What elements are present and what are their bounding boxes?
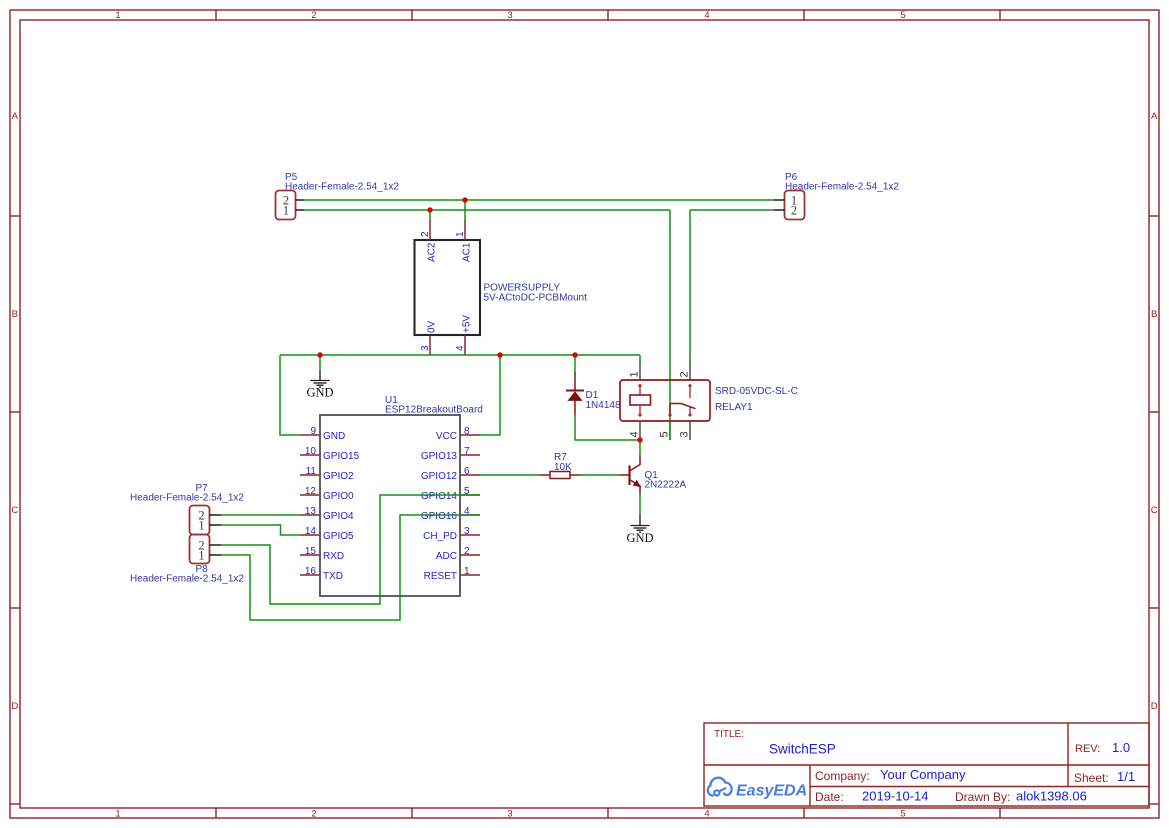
relay pin 5 stub: [669, 421, 671, 440]
svg-text:2019-10-14: 2019-10-14: [862, 789, 929, 804]
svg-text:GPIO13: GPIO13: [421, 451, 458, 462]
svg-text:4: 4: [455, 345, 466, 351]
wire Q1 emitter to GND2: [639, 494, 641, 514]
R7 left lead: [540, 474, 550, 476]
svg-text:Sheet:: Sheet:: [1074, 771, 1109, 785]
relay coil: [638, 384, 641, 387]
svg-text:2: 2: [464, 546, 470, 557]
wire relay pin4 to Q1 collector: [639, 440, 641, 455]
pin 10 GPIO15: [300, 454, 320, 456]
junction dots: [317, 197, 642, 442]
svg-text:4: 4: [704, 10, 709, 21]
svg-text:Company:: Company:: [815, 769, 870, 783]
svg-text:1: 1: [115, 10, 120, 21]
junction GND1: [317, 352, 322, 357]
wire VCC riser: [480, 355, 500, 435]
pin 14 GPIO5: [300, 534, 320, 536]
svg-text:7: 7: [464, 446, 470, 457]
svg-text:AC2: AC2: [427, 242, 438, 262]
svg-text:11: 11: [306, 466, 317, 477]
POWERSUPPLY body: [415, 240, 481, 335]
transistor Q1 2N2222A: [620, 455, 687, 494]
connector P5: [276, 172, 400, 220]
relay pin 1 stub: [639, 360, 641, 380]
svg-text:B: B: [12, 309, 18, 320]
svg-text:2: 2: [791, 204, 797, 218]
power supply module PS1: [415, 220, 588, 355]
svg-text:2: 2: [311, 10, 316, 21]
IC U1 ESP12BreakoutBoard: [300, 395, 483, 582]
wire AC1 drop to PS pin1: [464, 200, 466, 221]
wire rail to relay pin1: [639, 355, 641, 361]
wire GND1 tap: [319, 355, 321, 370]
pin 15 RXD: [300, 554, 320, 556]
R7 body: [550, 472, 570, 479]
pin 4 +5V: [464, 335, 466, 355]
svg-text:A: A: [12, 111, 19, 122]
wire R7 to Q1 base: [580, 474, 620, 476]
svg-text:13: 13: [305, 506, 317, 517]
svg-text:REV:: REV:: [1075, 743, 1100, 755]
svg-text:Date:: Date:: [815, 790, 844, 804]
ground GND2: [631, 514, 650, 532]
svg-text:TITLE:: TITLE:: [714, 729, 744, 740]
svg-text:ADC: ADC: [436, 551, 457, 562]
svg-text:Header-Female-2.54_1x2: Header-Female-2.54_1x2: [130, 574, 244, 585]
wire P8.2 to GPIO14: [221, 495, 480, 604]
svg-text:RESET: RESET: [424, 571, 457, 582]
R7 right lead: [570, 474, 580, 476]
resistor R7 10K: [540, 452, 580, 479]
svg-text:B: B: [1151, 309, 1157, 320]
TOPLAYER: [317, 197, 797, 596]
svg-text:SwitchESP: SwitchESP: [769, 742, 836, 757]
svg-text:0V: 0V: [427, 320, 438, 333]
svg-text:2N2222A: 2N2222A: [645, 480, 687, 491]
pin 7 GPIO13: [460, 454, 480, 456]
junction VCC riser: [497, 352, 502, 357]
pin 1 RESET: [460, 574, 480, 576]
svg-text:3: 3: [679, 431, 691, 437]
Q1 collector: [630, 455, 641, 471]
P6 body: [785, 191, 805, 220]
svg-text:GPIO15: GPIO15: [323, 451, 360, 462]
pin 12 GPIO0: [300, 494, 320, 496]
wire rail to U1 GND pin9: [280, 355, 300, 435]
P5 pin 1 stub: [296, 209, 305, 211]
junction AC2/PS2: [427, 207, 432, 212]
D1 triangle: [567, 391, 582, 401]
svg-text:1.0: 1.0: [1112, 740, 1130, 755]
wire P7.2 to GPIO4: [221, 514, 300, 516]
svg-text:10K: 10K: [554, 462, 572, 473]
svg-text:3: 3: [507, 809, 512, 820]
svg-text:5V-ACtoDC-PCBMount: 5V-ACtoDC-PCBMount: [484, 293, 588, 304]
diode D1 1N4148: [566, 372, 621, 416]
svg-text:5: 5: [900, 10, 905, 21]
pin 4 GPIO16: [460, 514, 480, 516]
junction AC1/PS1: [462, 197, 467, 202]
pin 16 TXD: [300, 574, 320, 576]
pin 5 GPIO14: [460, 494, 480, 496]
svg-text:AC1: AC1: [462, 242, 473, 262]
svg-text:RXD: RXD: [323, 551, 344, 562]
svg-text:5: 5: [900, 809, 905, 820]
wire P7.1 to GPIO5: [221, 525, 300, 535]
D1 cathode lead: [574, 372, 576, 391]
pin 8 VCC: [460, 434, 480, 436]
pin 9 GND: [300, 434, 320, 436]
svg-text:2: 2: [420, 231, 431, 237]
P5 pin 2 stub: [296, 199, 305, 201]
Q1 base bar: [628, 466, 630, 486]
P6 pin 1 stub: [774, 199, 785, 201]
relay pin stubs: [640, 360, 690, 440]
svg-text:GPIO2: GPIO2: [323, 471, 354, 482]
svg-text:2: 2: [311, 809, 316, 820]
svg-text:GND: GND: [323, 431, 345, 442]
svg-text:3: 3: [420, 345, 431, 351]
EasyEDA logo: [708, 778, 807, 800]
WIRES: [221, 200, 774, 620]
svg-text:4: 4: [629, 431, 641, 437]
svg-text:14: 14: [305, 526, 317, 537]
relay pin 2 stub: [689, 360, 691, 380]
Q1 base lead: [620, 474, 630, 476]
pin 2 AC2: [429, 220, 431, 240]
pin 13 GPIO4: [300, 514, 320, 516]
relay RELAY1 SRD-05VDC-SL-C: [620, 380, 798, 421]
svg-text:D: D: [11, 701, 18, 712]
svg-text:GPIO14: GPIO14: [421, 491, 458, 502]
svg-text:15: 15: [305, 546, 317, 557]
ground GND1: [311, 370, 330, 387]
wire relay pin5 vertical: [669, 210, 671, 440]
svg-text:1: 1: [283, 204, 289, 218]
P6 pin 2 stub: [774, 209, 785, 211]
wire relay pin2 to P6.2: [690, 209, 774, 211]
svg-text:GPIO4: GPIO4: [323, 511, 354, 522]
svg-text:1: 1: [198, 519, 204, 533]
relay pin 3 stub: [689, 421, 691, 440]
svg-text:3: 3: [507, 10, 512, 21]
connector P6: [774, 172, 899, 220]
svg-text:+5V: +5V: [462, 315, 473, 333]
svg-text:1: 1: [198, 549, 204, 563]
wire relay pin2 vertical: [689, 210, 691, 361]
svg-text:5: 5: [659, 431, 671, 437]
svg-text:EasyEDA: EasyEDA: [736, 783, 807, 800]
svg-text:12: 12: [305, 486, 317, 497]
svg-text:GND: GND: [626, 531, 653, 545]
svg-text:1N4148: 1N4148: [586, 400, 621, 411]
wire AC2 drop to PS pin2: [429, 210, 431, 221]
svg-text:Header-Female-2.54_1x2: Header-Female-2.54_1x2: [130, 493, 244, 504]
svg-text:GPIO12: GPIO12: [421, 471, 458, 482]
relay contact pin2: [688, 384, 691, 387]
P7 pin 2 stub: [210, 514, 222, 516]
P8 body: [190, 535, 210, 564]
IC U1 body: [320, 415, 460, 596]
pin 3 CH_PD: [460, 534, 480, 536]
svg-text:1/1: 1/1: [1117, 769, 1135, 784]
svg-text:9: 9: [310, 426, 316, 437]
wire GPIO12 to R7: [480, 474, 540, 476]
D1 cathode bar: [566, 390, 584, 392]
svg-text:1: 1: [629, 371, 641, 377]
pin 3 0V: [429, 335, 431, 355]
svg-text:10: 10: [305, 446, 317, 457]
P7 pin 1 stub: [210, 524, 222, 526]
relay common arm pin5: [668, 413, 671, 416]
connector P8: [130, 535, 244, 585]
relay contact pin3: [688, 413, 691, 416]
wire P8.1 to GPIO16: [221, 515, 480, 620]
pin 1 AC1: [464, 220, 466, 240]
wire net AC1 top rail P5.2 to P6.1: [304, 199, 774, 201]
wire net AC2 lower rail P5.1 to relay pin5 column: [304, 209, 670, 211]
Q1 emitter: [630, 480, 641, 495]
svg-text:3: 3: [464, 526, 470, 537]
pin 11 GPIO2: [300, 474, 320, 476]
svg-text:SRD-05VDC-SL-C: SRD-05VDC-SL-C: [715, 386, 798, 397]
svg-text:GPIO5: GPIO5: [323, 531, 354, 542]
TITLEBLOCK: [704, 723, 1149, 806]
svg-text:CH_PD: CH_PD: [423, 531, 457, 542]
P8 pin 2 stub: [210, 544, 222, 546]
svg-text:C: C: [11, 505, 18, 516]
junction D1 top: [572, 352, 577, 357]
svg-text:GPIO0: GPIO0: [323, 491, 354, 502]
pin 6 GPIO12: [460, 474, 480, 476]
svg-text:6: 6: [464, 466, 470, 477]
svg-text:2: 2: [679, 371, 691, 377]
svg-text:16: 16: [305, 566, 317, 577]
svg-text:1: 1: [464, 566, 470, 577]
svg-text:Drawn By:: Drawn By:: [955, 790, 1010, 804]
junction relay pin4 / D1 / Q1: [637, 437, 642, 442]
svg-text:1: 1: [455, 231, 466, 237]
svg-text:alok1398.06: alok1398.06: [1016, 789, 1087, 804]
svg-text:D: D: [1151, 701, 1158, 712]
pin 2 ADC: [460, 554, 480, 556]
svg-text:Header-Female-2.54_1x2: Header-Female-2.54_1x2: [285, 182, 399, 193]
svg-text:GND: GND: [306, 386, 333, 400]
wire 0V/+5V bottom rail: [280, 354, 640, 356]
wire D1 bottom to Q1 collector node: [575, 415, 640, 440]
svg-text:GPIO16: GPIO16: [421, 511, 458, 522]
svg-text:RELAY1: RELAY1: [715, 402, 753, 413]
connector P7: [130, 483, 244, 535]
svg-text:C: C: [1151, 505, 1158, 516]
wire D1 top: [574, 355, 576, 373]
P7 body: [190, 506, 210, 535]
svg-text:Your Company: Your Company: [880, 767, 966, 782]
P8 pin 1 stub: [210, 554, 222, 556]
svg-text:A: A: [1151, 111, 1158, 122]
svg-text:1: 1: [115, 809, 120, 820]
P5 body: [276, 191, 296, 220]
relay pin 4 stub: [639, 421, 641, 440]
D1 anode lead: [574, 401, 576, 416]
Q1 emitter arrow: [633, 480, 641, 487]
svg-text:ESP12BreakoutBoard: ESP12BreakoutBoard: [385, 405, 483, 416]
svg-text:4: 4: [704, 809, 709, 820]
svg-text:VCC: VCC: [436, 431, 457, 442]
svg-text:8: 8: [464, 426, 470, 437]
svg-text:TXD: TXD: [323, 571, 343, 582]
